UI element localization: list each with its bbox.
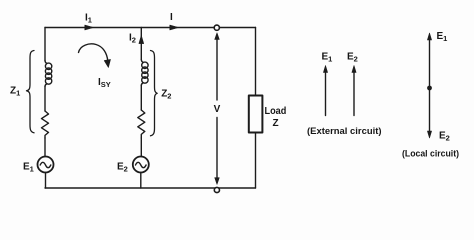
- svg-text:Z2: Z2: [161, 89, 171, 101]
- resistor R1 (of Z1): [42, 111, 49, 138]
- wire E2 to bottom bus: [140, 173, 142, 189]
- wire left branch vertical top: [44, 28, 46, 61]
- current arrow I: [170, 25, 179, 30]
- svg-text:E1: E1: [322, 52, 333, 64]
- svg-text:E2: E2: [347, 52, 358, 64]
- label E1 external phasor: [322, 52, 333, 64]
- svg-text:I: I: [170, 12, 173, 23]
- label Z1: [10, 86, 20, 98]
- svg-text:E2: E2: [117, 162, 128, 174]
- terminal node bottom: [214, 187, 219, 192]
- wire E1 to bottom bus: [45, 173, 47, 189]
- label Z2: [161, 89, 171, 101]
- resistor R2 (of Z2): [138, 110, 145, 138]
- label V: [214, 104, 221, 115]
- caption external circuit: [307, 126, 382, 137]
- brace for Z1: [27, 51, 35, 133]
- label E1 local phasor: [437, 31, 448, 43]
- phasor arrow E2 external: [352, 66, 356, 116]
- svg-text:Load: Load: [265, 106, 287, 117]
- current arrow I2: [139, 35, 144, 43]
- label I2: [129, 33, 136, 45]
- label I: [170, 12, 173, 23]
- svg-text:(External circuit): (External circuit): [307, 126, 382, 137]
- label Load Z: [265, 106, 287, 129]
- label E2 source: [117, 162, 128, 174]
- source E1 (AC): [38, 157, 54, 173]
- svg-text:Z1: Z1: [10, 86, 20, 98]
- caption local circuit: [402, 149, 459, 160]
- svg-text:V: V: [214, 104, 221, 115]
- wire bottom bus: [45, 187, 256, 189]
- label E1 source: [23, 162, 34, 174]
- svg-text:E1: E1: [437, 31, 448, 43]
- terminal node top: [214, 25, 219, 30]
- svg-text:E2: E2: [439, 131, 450, 143]
- voltage arrow V (double-headed): [215, 33, 220, 185]
- phasor arrow E1 external: [323, 66, 327, 116]
- wire top bus: [45, 27, 256, 29]
- label E2 local phasor: [439, 131, 450, 143]
- brace for Z2: [151, 51, 158, 136]
- wire Z1 coil to resistor: [44, 87, 46, 112]
- svg-text:ISY: ISY: [98, 77, 111, 89]
- circulating current arc Isy: [79, 44, 111, 68]
- inductor L1 (coil of Z1): [45, 61, 52, 87]
- junction dot local circuit: [427, 86, 432, 91]
- inductor L2 (coil of Z2): [141, 60, 148, 86]
- load Z box: [249, 96, 263, 133]
- svg-text:I1: I1: [85, 13, 92, 25]
- wire middle branch vertical: [140, 28, 142, 60]
- svg-text:E1: E1: [23, 162, 34, 174]
- label I1: [85, 13, 92, 25]
- source E2 (AC): [133, 157, 149, 173]
- current arrow I1: [85, 25, 94, 30]
- svg-text:(Local circuit): (Local circuit): [402, 149, 459, 160]
- svg-text:I2: I2: [129, 33, 136, 45]
- wire resistor to source E2: [140, 138, 142, 157]
- label E2 external phasor: [347, 52, 358, 64]
- phasor line local circuit: [427, 33, 431, 138]
- svg-text:Z: Z: [273, 118, 279, 129]
- wire resistor to source E1: [44, 138, 46, 157]
- wire load branch right: [255, 28, 257, 189]
- wire Z2 coil to resistor: [140, 86, 142, 111]
- label Isy: [98, 77, 111, 89]
